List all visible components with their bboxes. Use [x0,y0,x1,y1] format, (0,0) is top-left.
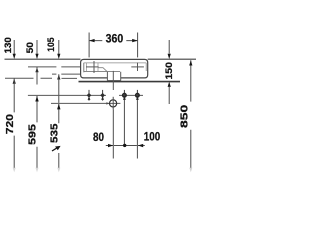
tap hole box left [85,63,87,72]
extension line hole4 down [136,101,138,159]
dimension line 150 upper [168,40,170,54]
right centerline cross horizontal [131,66,144,68]
faint floor arrow 720 [13,168,16,173]
fixing hole cross 3 [123,90,125,101]
drain sump walls [107,72,120,81]
dot between 80 and 100 [123,144,126,147]
basin inner bottom line [84,71,120,73]
rim extension line right [148,58,196,60]
drain sump bottom [107,80,120,82]
basin inner right vertical [145,63,147,71]
arrow 105 up [57,74,60,79]
arrow 100 right [138,144,143,147]
extension line 360 left [88,33,90,58]
fixing hole cross 4 [136,90,138,101]
dimension line 130 upper [13,40,15,54]
svg-text:360: 360 [106,32,124,46]
rim extension line left [5,58,81,60]
svg-text:80: 80 [93,130,104,144]
extension line drain to floor [112,109,114,158]
dimension line 80-100 [106,145,145,147]
dimension line 850 [190,60,192,168]
arrow 80 left [108,144,113,147]
arrow 535 up at drain centerline [57,104,60,110]
svg-text:130: 130 [3,37,14,53]
faint floor arrow 850 [189,168,192,173]
arrow below hole 1 [88,96,91,100]
drain vertical centerline to basin [112,71,114,90]
reference line 50 depth [28,66,81,68]
tap hole cross vertical [93,61,95,73]
basin bowl shelf line [98,68,107,72]
dimension line 535 [58,74,60,168]
svg-text:720: 720 [4,114,16,134]
dimension line 50 upper [36,40,38,54]
arrow 595 up at holes centerline [35,96,38,102]
arrow below hole 4 [136,96,139,100]
fixing holes centerline [28,94,143,96]
fixing hole cross 1 [88,90,90,101]
arrow 50 down [35,54,38,59]
dimension line 595 [36,67,38,168]
svg-text:105: 105 [46,37,57,52]
drain circle crosshair vertical [112,97,114,110]
fixing hole cross 2 [102,90,104,101]
faint floor arrow 595 [36,168,39,173]
svg-text:100: 100 [144,130,161,144]
drain centerline arrow [106,102,109,104]
arrow 130 up [13,78,16,83]
dimension line 150 lower [168,87,170,104]
arrow 150 down [168,54,171,59]
arrow 850 up [189,60,192,65]
arrow below hole 2 [101,96,104,100]
dimension line 720 [13,78,15,168]
slant arrow 535 [52,148,57,151]
arrow below hole 3 [123,96,126,100]
svg-text:850: 850 [180,104,191,128]
reference line 130 depth [5,77,77,79]
basin inner left vertical [83,63,85,72]
basin inner top line [84,62,147,64]
extension line 360 right [137,33,139,58]
faint floor arrow 535 [57,168,60,173]
arrow 360 left [89,39,95,42]
svg-text:150: 150 [164,62,175,80]
svg-text:50: 50 [25,42,36,53]
right centerline cross vertical [137,63,139,72]
dimension line 105 upper [58,40,60,54]
tap hole cross horizontal [86,66,99,68]
arrow 150 up [168,82,171,87]
arrow 105 down [57,54,60,59]
lower reference line under basin [79,81,181,83]
arrow 360 right [132,39,138,42]
extension line hole3 down [123,101,125,146]
arrow 130 down [13,54,16,59]
drain circle [110,100,117,107]
reference line 105 depth [52,73,81,75]
drain centerline horizontal [51,102,120,104]
svg-text:595: 595 [27,124,39,145]
svg-text:535: 535 [48,123,60,143]
basin outline [81,59,148,78]
arrow 50 up [35,67,38,72]
dimension line 360 [89,40,138,42]
tap hole box right [97,63,99,72]
